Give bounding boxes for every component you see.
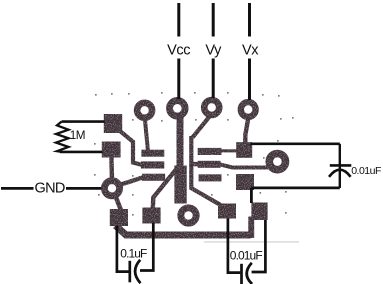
pad P2 left lower square: [102, 142, 121, 158]
wire GND to donut D5: [66, 187, 102, 190]
svg-text:0.01uF: 0.01uF: [230, 249, 263, 263]
IC pad bar R3: [199, 174, 222, 181]
IC pad bar L3: [142, 174, 165, 181]
grid dot row5: [98, 194, 100, 196]
grid dot row4: [94, 174, 96, 176]
wire C3 right lead: [252, 220, 266, 272]
donut pad D6 right: [269, 154, 285, 170]
donut pad D3: [204, 100, 219, 115]
trace D3 diagonal: [193, 117, 210, 138]
donut pad D5 ground: [104, 181, 119, 196]
trace stub to pad P6: [153, 170, 176, 209]
trace pad P8 to bus: [248, 217, 254, 239]
capacitor C1 curved plate: [329, 170, 351, 177]
trace vertical to pad P7 diagonal: [191, 188, 222, 206]
trace D4 to pad P3: [245, 119, 248, 144]
grid dots: [94, 92, 294, 216]
wire C1 loop right lower: [339, 167, 341, 188]
svg-text:0.01uF: 0.01uF: [351, 165, 381, 177]
copper layer: [102, 100, 286, 238]
trace donut D5 to bar L3: [120, 177, 144, 185]
trace center wide stub to D7: [174, 166, 186, 204]
trace bar R1 to pad P3: [221, 149, 237, 152]
wire C1 loop right upper: [339, 144, 341, 166]
capacitor C3 curved plate: [247, 263, 252, 284]
pad P8 bottom square 4: [251, 203, 267, 221]
capacitor C1 top plate: [330, 164, 352, 167]
donut pad D4: [241, 102, 256, 117]
pad P7 bottom square 3: [218, 204, 236, 219]
wire loop to pad P8: [250, 188, 253, 203]
donut pad D1: [137, 103, 152, 118]
resistor R1 bottom lead: [60, 151, 103, 154]
trace D3 vertical: [189, 136, 193, 190]
svg-text:GND: GND: [35, 181, 65, 197]
svg-text:Vy: Vy: [205, 43, 222, 59]
wire Vx upper lead: [248, 3, 251, 37]
pad P3 right upper square: [236, 142, 252, 158]
trace D1 to bar L1: [145, 118, 148, 151]
grid dot row2: [132, 119, 134, 121]
pad P1 left upper square: [104, 114, 122, 133]
grid dot row6: [132, 214, 134, 216]
IC pad bar R1: [198, 148, 222, 155]
donut pad D2: [170, 101, 186, 117]
IC pad bar R2: [198, 161, 221, 168]
capacitor C2 left plate: [128, 261, 131, 283]
wire GND left segment: [1, 187, 34, 190]
wire Vcc to donut D2: [177, 59, 180, 100]
wire Vcc upper lead: [177, 3, 180, 37]
svg-text:0.1uF: 0.1uF: [120, 247, 147, 261]
grid dot row1: [95, 94, 97, 96]
grid dot row3: [94, 143, 96, 145]
wire C2 left lead: [117, 226, 129, 272]
svg-text:Vx: Vx: [242, 43, 259, 59]
wire C2 right lead: [140, 223, 153, 271]
trace bottom thick bus: [116, 226, 251, 236]
svg-text:1M: 1M: [70, 129, 85, 142]
trace donut D5 to pad P5: [116, 197, 121, 210]
trace D2 wide vertical: [177, 117, 184, 169]
pad P6 bottom square 2: [142, 208, 160, 224]
resistor R1 1M zigzag: [56, 122, 69, 152]
IC pad bar L2: [141, 161, 164, 168]
trace bar R2 to donut D6: [220, 164, 270, 167]
trace pad P1 to bar L2: [119, 130, 142, 165]
donut pad D7 bottom: [181, 208, 196, 223]
wire Vy to donut D3: [212, 59, 215, 99]
wire Vx to donut D4: [248, 59, 251, 101]
wire C1 loop bottom: [251, 186, 339, 189]
capacitor C2 curved plate: [135, 260, 140, 283]
pad P5 bottom square 1: [110, 209, 128, 226]
svg-text:Vcc: Vcc: [167, 43, 190, 59]
capacitor C3 left plate: [240, 264, 243, 284]
wire C3 left lead: [228, 219, 241, 273]
IC pad bar L1: [141, 150, 164, 157]
wire Vy upper lead: [212, 3, 215, 37]
pad P4 right lower square: [236, 174, 254, 190]
resistor R1 top lead: [62, 120, 105, 123]
trace pad P2 to donut D5: [109, 157, 114, 181]
scan artifact faint line: [204, 241, 299, 243]
wire capacitor C1 loop top: [251, 143, 340, 146]
trace stub to bar R2: [191, 162, 198, 166]
